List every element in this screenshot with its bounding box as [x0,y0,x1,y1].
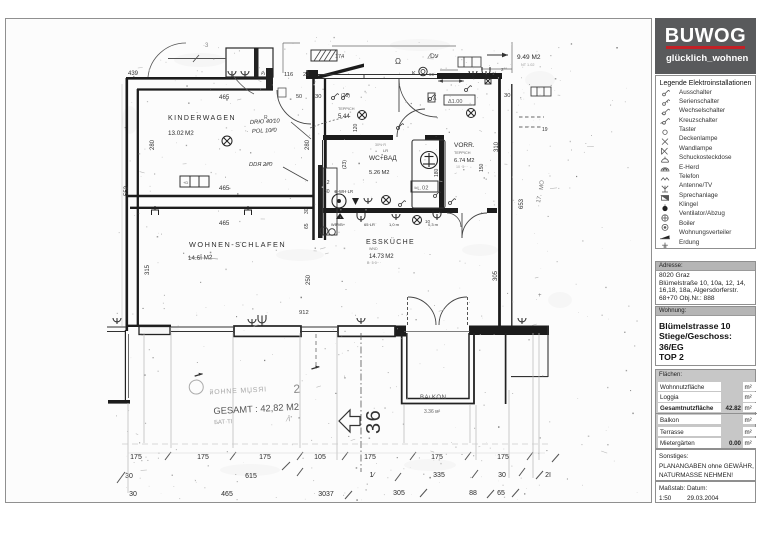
BUWOG logo [655,18,756,74]
svg-text:653: 653 [519,198,525,209]
svg-text:14.73 M2: 14.73 M2 [369,254,394,260]
schuckosteckdose symbol [662,156,669,162]
wall lamp symbols top wall [228,71,236,77]
wall: right exterior [500,79,512,331]
symbols row below esskueche wall [336,213,344,219]
door arc: WC+Bad [397,109,425,137]
wall: Essküche top [323,208,458,213]
svg-text:6.74 M2: 6.74 M2 [454,158,475,164]
svg-text:65: 65 [304,223,310,229]
door arc: hall to Kinderwagen [277,90,311,124]
svg-text:3037: 3037 [318,491,334,498]
washing machine symbol [332,194,346,208]
svg-text:116: 116 [284,72,293,78]
svg-text:912: 912 [299,310,309,316]
kitchen door arc [447,213,461,227]
svg-text:280: 280 [150,139,156,150]
ceiling lamp hall [358,111,367,120]
svg-text:NT 1.02: NT 1.02 [521,63,534,67]
klingel symbol [662,204,667,211]
flaechen box [655,369,756,449]
svg-text:30: 30 [304,208,310,214]
window sockets wohnen sill [248,319,256,326]
wechselschalter symbol [662,109,670,115]
ceiling lamp Essküche [413,216,422,225]
door arc: apartment entrance [399,79,437,117]
svg-text:K: K [412,71,416,77]
svg-text:Δ1.00: Δ1.00 [448,99,462,105]
wall: top exterior (Kinderwagen) [126,78,273,89]
svg-text:WOHNEN-SCHLAFEN: WOHNEN-SCHLAFEN [189,240,286,249]
balcony door threshold [404,331,470,333]
svg-text:2: 2 [293,382,301,396]
STG box [531,87,551,96]
dimension chain line row1 [128,452,545,454]
svg-text:2І: 2І [545,472,551,479]
svg-text:9.49 M2: 9.49 M2 [517,54,541,61]
svg-text:552: 552 [124,185,130,196]
dimension extension lines [128,333,539,493]
svg-text:280: 280 [305,139,311,150]
wall: WC+Bad top east [425,135,444,140]
stair landing lines [283,42,512,73]
svg-text:TEPPICH: TEPPICH [338,107,355,111]
svg-text:30℅·R: 30℅·R [375,143,386,147]
svg-text:3¹: 3¹ [261,70,267,75]
scan noise specks [117,37,638,493]
dim tick marks row1 [165,452,533,460]
door arc: top-left niche [148,43,186,77]
wiring lines [232,74,352,128]
svg-text:+: + [538,293,542,299]
hall top thin wall lines [318,75,437,79]
ceiling lamp Vorraum [467,109,476,118]
svg-text:10 ·5···: 10 ·5··· [456,165,468,169]
ventilator/abzug symbol [662,214,668,220]
svg-text:310: 310 [494,141,500,152]
wall: left exterior [127,78,138,331]
svg-text:465: 465 [221,491,233,498]
deckenlampe symbol [662,138,668,144]
svg-text:465: 465 [219,94,230,101]
boiler symbol in bath [421,152,438,169]
svg-text:30: 30 [125,473,133,480]
wall: room divider horizontal [127,196,314,208]
antenne/tv symbol [662,185,668,191]
svg-text:≈ʟ.02: ≈ʟ.02 [414,186,429,192]
svg-text:йOHNE MЏSЯІ: йOHNE MЏSЯІ [209,385,267,396]
direction arrow top [487,54,508,56]
duct shaft [318,140,337,238]
svg-text:50: 50 [296,94,302,100]
svg-text:(20): (20) [341,93,350,99]
svg-text:120: 120 [353,123,359,132]
wall: hall top east segment [437,73,502,79]
boiler symbol [662,224,668,230]
svg-text:БАТ·ТІ: БАТ·ТІ [214,419,233,426]
svg-text:GESAMT : 42,82 М2: GESAMT : 42,82 М2 [213,402,299,416]
svg-text:+D: +D [183,180,188,185]
svg-text:36: 36 [363,409,385,434]
niche outline above top wall [226,48,273,77]
wall: left lower stub [124,330,126,400]
svg-text:175: 175 [130,454,142,461]
svg-text:315: 315 [145,264,151,275]
svg-text:BAʟKON: BAʟKON [420,395,446,401]
svg-text:150: 150 [479,163,485,172]
svg-text:B· 5·0·· ·: B· 5·0·· · [367,261,381,265]
svg-text:WB∕VB+: WB∕VB+ [331,223,346,227]
wohnungsverteiler symbol [660,235,670,238]
kreuzschalter symbol [661,118,670,124]
svg-text:65·LR: 65·LR [364,222,375,227]
svg-text:28: 28 [303,72,309,78]
wall: right lower stub [505,333,507,404]
svg-text:WND: WND [369,247,378,251]
svg-text:5.26 M2: 5.26 M2 [369,170,390,176]
wall: bottom sill 3 [338,326,395,336]
section arrow [339,410,360,432]
svg-text:⊕-WH·LR: ⊕-WH·LR [334,189,353,194]
svg-text:175: 175 [197,454,209,461]
svg-text:(23): (23) [342,160,348,169]
svg-text:1,0 m: 1,0 m [389,222,400,227]
wandlampe symbol [662,148,668,154]
box near stair [458,57,481,67]
svg-text:30: 30 [498,472,506,479]
svg-text:175: 175 [259,454,271,461]
svg-text:Ω: Ω [395,57,401,66]
svg-text:·3: ·3 [203,43,209,49]
svg-text:174: 174 [335,54,344,60]
hook symbols under divider [152,206,159,215]
section line dash-dot [360,333,362,472]
window socket right sill [518,318,526,324]
dashed lines right [519,117,544,127]
svg-text:DDЯ 2∕⁄⁄0: DDЯ 2∕⁄⁄0 [249,162,273,168]
svg-text:LR: LR [383,148,388,153]
svg-text:465: 465 [219,185,230,192]
svg-text:105: 105 [314,454,326,461]
svg-text:VORR.: VORR. [454,142,475,149]
sprechanlage symbol [662,195,669,200]
svg-text:17.: 17. [536,194,543,204]
svg-text:Λ: Λ [433,96,437,102]
ausschalter symbol [663,90,670,96]
wall: balcony right [407,333,469,399]
massstab box [655,481,756,503]
door arc: Vorraum to Essküche [462,213,487,238]
svg-text:305: 305 [393,490,405,497]
wall: Essküche top east stub [487,208,497,213]
wall: WC+Bad right [439,135,444,213]
bathtub [412,140,445,208]
entrance door hatch box [278,50,337,97]
svg-text:KINDERWAGEN: KINDERWAGEN [168,115,236,122]
socket next to wm [364,198,372,204]
svg-text:13.02 M2: 13.02 M2 [168,130,194,137]
leader line dru [291,122,311,139]
stamp group [188,365,322,428]
wall socket symbols hall top [469,71,477,77]
svg-text:88: 88 [469,490,477,497]
left dim line [121,84,123,326]
svg-text:14.6Ї М2: 14.6Ї М2 [188,253,213,262]
svg-text:РOL 10∕⁄0: РOL 10∕⁄0 [252,128,278,135]
svg-text:DRЮ 40∕10: DRЮ 40∕10 [250,118,281,126]
svg-text:175: 175 [497,454,509,461]
wall: hall top west pier [306,70,318,79]
svg-text:250: 250 [306,274,312,285]
window in bottom wall 2 [300,327,337,332]
wall: bottom sill 1 [107,326,126,328]
legend box [655,75,756,249]
switch symbols [332,94,339,100]
svg-text:30: 30 [504,93,510,99]
svg-text:WC+BAД: WC+BAД [369,155,397,162]
svg-text:65: 65 [497,490,505,497]
svg-text:30: 30 [324,189,330,195]
erdung symbol [662,242,668,248]
middle wall axis dashed [315,334,317,366]
svg-text:1∕: 1∕ [369,472,376,479]
HT02 box [411,181,438,192]
sonstiges box [655,449,756,481]
svg-text:1°: 1° [492,71,497,76]
svg-text:465: 465 [219,220,230,227]
e-herd symbol [661,167,669,170]
wall: bottom sill 4 [469,326,549,336]
wall: WC+Bad top west [323,135,393,140]
svg-text:305: 305 [493,270,499,281]
svg-text:19: 19 [542,127,548,133]
faint scan band [122,443,548,445]
wohnung box [655,306,756,366]
window socket essk sill [357,318,365,324]
svg-text:⁄Ї: ⁄Ї [285,415,291,423]
wall: balcony left [402,333,474,404]
dim tick marks row2 [297,468,525,481]
serienschalter symbol [663,99,670,105]
neighbor terrace lines [547,326,549,377]
entrance door diagonal leaf [318,64,364,80]
svg-text:12: 12 [324,180,330,186]
wall: bottom sill 2 [234,326,301,336]
svg-text:175: 175 [364,454,376,461]
radiator box Kinderwagen [180,176,209,187]
ceiling lamp WC+Bad [382,196,391,205]
svg-text:30: 30 [315,94,321,100]
adresse box [655,261,756,305]
door arcs: balcony french doors [408,297,468,325]
svg-text:30: 30 [129,491,137,498]
svg-text:0,3 m: 0,3 m [428,222,439,227]
plan sheet border [5,18,652,503]
svg-text:2°°: 2°° [501,67,507,72]
svg-text:180: 180 [434,168,440,177]
door leaf: entrance [398,79,400,112]
wall: middle vertical [314,79,326,240]
svg-text:3.36 м²: 3.36 м² [424,409,441,415]
window socket left sill [113,318,121,324]
telefon symbol [661,177,669,180]
taster symbol [663,130,667,134]
window in bottom wall 1 [171,327,233,332]
svg-text:335: 335 [433,472,445,479]
svg-text:ESSKÜCHE: ESSKÜCHE [366,238,415,246]
ceiling lamp Kinderwagen [222,136,232,146]
svg-text:TEPPICH: TEPPICH [454,151,471,155]
svg-text:МО: МО [539,180,546,190]
svg-text:90: 90 [429,72,435,77]
